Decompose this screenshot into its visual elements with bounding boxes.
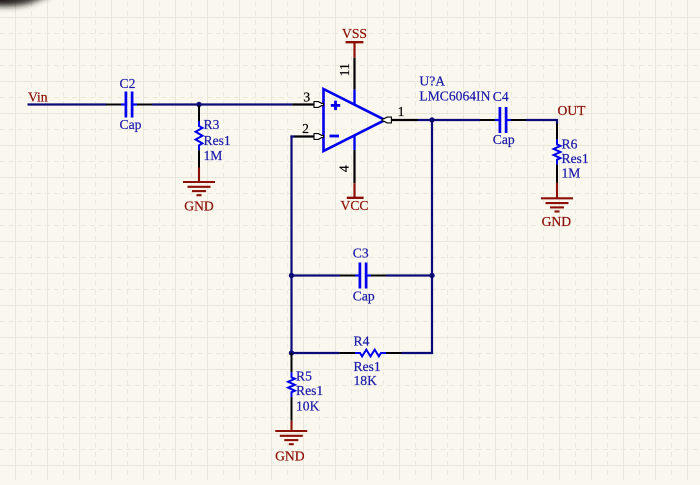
op-amp U?A triangle — [324, 89, 386, 151]
ground GND (below R5) — [290, 421, 292, 431]
wire R4 left — [292, 352, 340, 354]
svg-text:Vin: Vin — [28, 90, 48, 105]
svg-text:U?A: U?A — [419, 74, 445, 89]
node E junction (R4 left) — [289, 350, 294, 355]
wire C2 to node A and pin 3 — [152, 103, 292, 105]
svg-text:GND: GND — [184, 198, 214, 213]
resistor R4 — [339, 352, 355, 354]
svg-text:Res1: Res1 — [354, 359, 381, 374]
svg-text:Cap: Cap — [353, 288, 375, 303]
svg-text:R5: R5 — [296, 369, 312, 384]
resistor R3 — [198, 106, 200, 122]
pin 2 (inverting input) — [294, 135, 315, 137]
svg-text:R4: R4 — [354, 333, 370, 348]
pin 1 (output) arrow — [382, 117, 391, 123]
capacitor C2 — [106, 104, 121, 106]
svg-text:GND: GND — [275, 449, 305, 464]
svg-text:C4: C4 — [493, 89, 509, 104]
capacitor C4 — [480, 119, 495, 121]
svg-text:VCC: VCC — [341, 198, 369, 213]
svg-text:VSS: VSS — [342, 26, 367, 41]
svg-text:1M: 1M — [204, 148, 223, 163]
svg-text:4: 4 — [337, 165, 352, 172]
svg-text:Res1: Res1 — [296, 383, 323, 398]
wire pin2 corner — [290, 135, 294, 137]
corner shadow artifact — [0, 0, 52, 6]
resistor R5 — [291, 353, 293, 372]
ground GND (below R6) — [556, 183, 558, 198]
svg-text:C2: C2 — [120, 76, 136, 91]
wire R4 right to output vertical — [402, 352, 434, 354]
svg-text:R3: R3 — [204, 117, 220, 132]
wire output vertical — [431, 120, 433, 353]
svg-text:11: 11 — [337, 63, 352, 76]
svg-text:Cap: Cap — [493, 132, 515, 147]
svg-text:OUT: OUT — [558, 103, 587, 118]
svg-text:2: 2 — [302, 121, 309, 136]
node C junction (C3 left) — [289, 273, 294, 278]
svg-text:LMC6064IN: LMC6064IN — [419, 88, 490, 103]
pin 2 arrow — [314, 134, 323, 140]
svg-text:Res1: Res1 — [204, 133, 231, 148]
wire C4 to OUT corner — [526, 120, 557, 125]
node A junction — [196, 102, 201, 107]
svg-text:C3: C3 — [353, 246, 369, 261]
wire Vin to C2 — [28, 103, 107, 105]
svg-text:Res1: Res1 — [562, 151, 589, 166]
svg-text:Cap: Cap — [120, 117, 142, 132]
pin 3 arrow — [314, 102, 323, 108]
ground GND (below R3) — [198, 168, 200, 183]
svg-text:GND: GND — [542, 214, 572, 229]
op-amp minus symbol — [330, 135, 340, 138]
node D junction (C3 right) — [429, 273, 434, 278]
svg-text:18K: 18K — [354, 373, 378, 388]
resistor R6 — [556, 123, 558, 139]
svg-text:1: 1 — [398, 104, 405, 119]
svg-text:1M: 1M — [562, 166, 581, 181]
pin 3 (non-inverting input) — [292, 103, 314, 105]
wire C3 left — [292, 274, 341, 276]
pin 1 (output) — [391, 119, 417, 121]
power port VCC — [353, 183, 355, 198]
svg-text:3: 3 — [303, 89, 310, 104]
pin 4 (V-) — [353, 136, 355, 150]
svg-text:R6: R6 — [562, 137, 578, 152]
pin 11 (V+) — [353, 58, 355, 90]
capacitor C3 — [340, 275, 355, 277]
wire C3 right — [386, 274, 432, 276]
node B junction — [429, 117, 434, 122]
power port VSS — [353, 43, 355, 58]
wire pin1 to node B — [418, 119, 481, 121]
svg-text:10K: 10K — [296, 398, 320, 413]
wire inverting input vertical — [290, 135, 292, 353]
op-amp plus symbol — [331, 104, 340, 107]
